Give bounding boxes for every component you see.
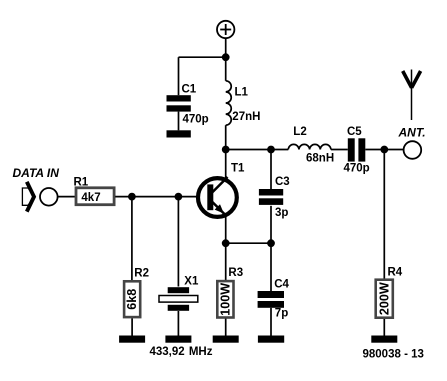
svg-text:6k8: 6k8	[125, 289, 139, 310]
crystal X1	[159, 275, 199, 311]
svg-text:R1: R1	[74, 177, 89, 189]
wire R2 bottom	[131, 318, 133, 335]
wire C4 top	[270, 243, 272, 291]
svg-text:L2: L2	[293, 126, 306, 138]
resistor R2	[124, 267, 149, 317]
ground C4	[258, 336, 284, 343]
svg-text:433,92 MHz: 433,92 MHz	[150, 346, 213, 358]
wire base	[115, 196, 198, 198]
ground C1	[167, 130, 191, 137]
ground R2	[119, 336, 145, 343]
svg-text:DATA IN: DATA IN	[13, 166, 60, 180]
node emitter rail left	[222, 239, 230, 247]
svg-text:7p: 7p	[275, 308, 288, 320]
svg-text:X1: X1	[184, 275, 199, 287]
capacitor C1	[167, 83, 209, 125]
ground R4	[371, 336, 397, 343]
resistor R3	[217, 267, 243, 318]
svg-text:R2: R2	[134, 267, 149, 279]
svg-text:ANT.: ANT.	[398, 126, 426, 140]
wire C5 to ANT	[365, 149, 403, 151]
capacitor C5	[344, 126, 370, 175]
wire R3 bottom	[225, 319, 227, 336]
wire input to R1	[58, 196, 76, 198]
node base R2	[128, 193, 136, 201]
wire C3 top	[270, 150, 272, 191]
node C3 top	[267, 146, 275, 154]
capacitor C4	[258, 279, 290, 320]
wire R2 top	[131, 197, 133, 281]
resistor R1	[74, 177, 115, 205]
inductor L2	[288, 126, 334, 164]
inductor L1	[226, 81, 261, 125]
wire C1 bottom	[178, 112, 180, 131]
node supply junction	[222, 53, 230, 61]
svg-text:T1: T1	[231, 163, 245, 175]
svg-text:C1: C1	[182, 83, 197, 95]
antenna terminal circle	[404, 141, 422, 159]
node R4 top	[380, 146, 388, 154]
svg-text:27nH: 27nH	[232, 111, 260, 123]
svg-text:C3: C3	[275, 176, 290, 188]
svg-text:200W: 200W	[377, 282, 391, 315]
connector DATA IN	[13, 166, 60, 212]
svg-text:L1: L1	[235, 86, 249, 98]
wire L1 top	[225, 57, 227, 81]
svg-text:C4: C4	[274, 279, 289, 291]
wire supply rail left	[179, 56, 226, 58]
wire supply down	[225, 38, 227, 57]
wire emitter rail	[226, 242, 271, 244]
wire R4 top	[383, 150, 385, 279]
transistor T1	[198, 163, 245, 217]
resistor R4	[376, 267, 403, 318]
wire collector	[225, 150, 227, 180]
antenna symbol	[403, 70, 421, 121]
wire C1 top	[178, 57, 180, 95]
svg-text:980038 - 13: 980038 - 13	[363, 348, 424, 360]
wire C4 bottom	[270, 308, 272, 336]
node collector rail	[222, 146, 230, 154]
wire R4 bottom	[383, 319, 385, 336]
wire emitter	[225, 216, 227, 244]
power supply + terminal	[217, 21, 234, 38]
svg-text:C5: C5	[347, 126, 362, 138]
svg-text:4k7: 4k7	[81, 192, 100, 204]
svg-text:R4: R4	[388, 267, 403, 279]
wire X1 top	[177, 197, 179, 287]
wire L2 to C5	[331, 149, 348, 151]
node base X1	[175, 193, 183, 201]
wire R3 top	[225, 243, 227, 281]
input terminal circle	[40, 188, 58, 206]
svg-text:100W: 100W	[218, 283, 232, 316]
ground R3	[213, 336, 239, 343]
svg-text:470p: 470p	[183, 114, 209, 126]
wire C3 bottom	[270, 206, 272, 243]
svg-text:R3: R3	[228, 267, 243, 279]
svg-text:470p: 470p	[344, 163, 370, 175]
capacitor C3	[259, 176, 290, 219]
node emitter rail right	[267, 239, 275, 247]
wire X1 bottom	[177, 311, 179, 336]
ground X1	[165, 336, 191, 343]
svg-text:3p: 3p	[275, 207, 288, 219]
wire L1 bottom	[225, 125, 227, 149]
wire collector rail	[226, 149, 289, 151]
svg-text:68nH: 68nH	[306, 153, 334, 165]
